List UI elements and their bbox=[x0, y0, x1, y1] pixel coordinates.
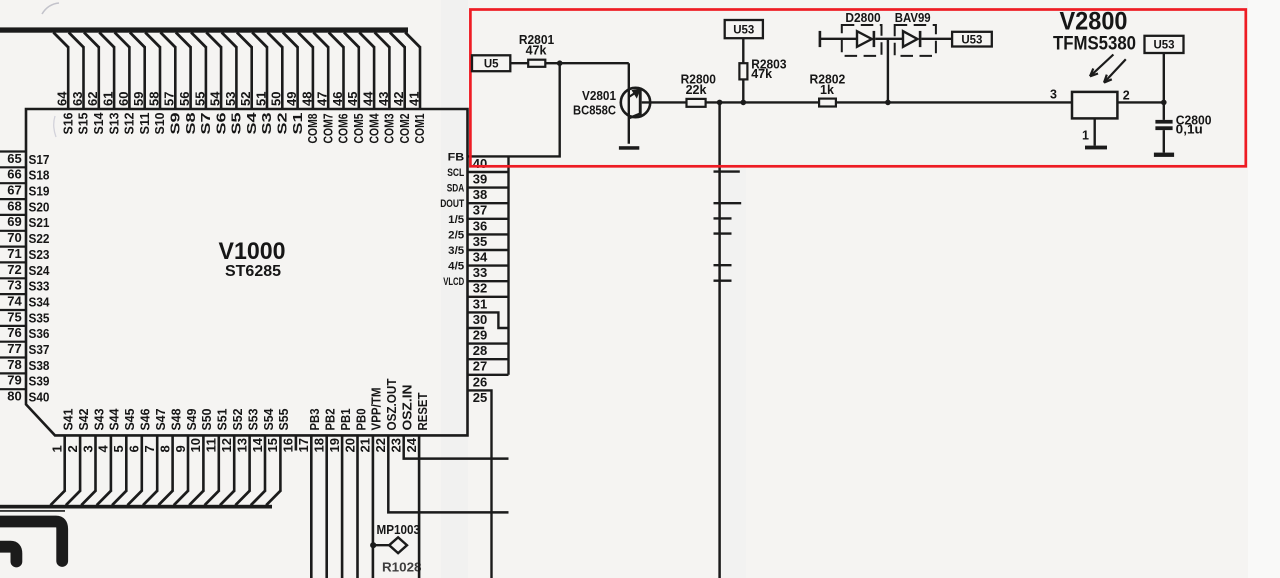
svg-text:59: 59 bbox=[131, 92, 146, 107]
svg-text:S3: S3 bbox=[260, 112, 274, 134]
svg-text:3: 3 bbox=[1050, 88, 1057, 102]
svg-text:38: 38 bbox=[473, 187, 488, 202]
svg-text:4: 4 bbox=[96, 445, 111, 453]
svg-text:PB2: PB2 bbox=[324, 408, 338, 430]
svg-text:60: 60 bbox=[116, 92, 131, 107]
svg-text:S52: S52 bbox=[231, 408, 245, 430]
svg-text:24: 24 bbox=[404, 437, 419, 452]
svg-text:41: 41 bbox=[406, 92, 421, 107]
svg-text:S24: S24 bbox=[29, 263, 51, 278]
svg-text:49: 49 bbox=[284, 92, 299, 107]
svg-text:S10: S10 bbox=[153, 112, 167, 134]
svg-text:54: 54 bbox=[208, 91, 223, 106]
svg-text:9: 9 bbox=[173, 445, 188, 452]
svg-text:66: 66 bbox=[7, 167, 22, 182]
svg-text:S16: S16 bbox=[61, 112, 75, 134]
svg-text:S19: S19 bbox=[29, 184, 50, 199]
svg-text:22: 22 bbox=[373, 438, 388, 453]
svg-text:COM1: COM1 bbox=[413, 113, 427, 143]
svg-text:PB3: PB3 bbox=[308, 408, 322, 430]
svg-text:COM5: COM5 bbox=[352, 113, 366, 143]
svg-text:78: 78 bbox=[7, 357, 22, 372]
svg-text:DOUT: DOUT bbox=[440, 198, 464, 210]
svg-text:10: 10 bbox=[188, 438, 203, 453]
svg-text:S42: S42 bbox=[77, 408, 91, 430]
svg-text:17: 17 bbox=[296, 438, 311, 453]
svg-text:S54: S54 bbox=[262, 408, 276, 430]
svg-text:S36: S36 bbox=[29, 326, 50, 341]
svg-text:44: 44 bbox=[361, 91, 376, 106]
svg-text:62: 62 bbox=[85, 92, 100, 107]
svg-text:55: 55 bbox=[192, 92, 207, 107]
svg-text:76: 76 bbox=[7, 325, 22, 340]
svg-text:R1028: R1028 bbox=[382, 561, 422, 575]
svg-text:S9: S9 bbox=[169, 112, 183, 134]
svg-text:COM2: COM2 bbox=[398, 113, 412, 143]
svg-text:S38: S38 bbox=[29, 358, 50, 373]
svg-text:3/5: 3/5 bbox=[448, 245, 464, 257]
svg-text:58: 58 bbox=[146, 92, 161, 107]
svg-text:S6: S6 bbox=[214, 112, 228, 134]
svg-text:S14: S14 bbox=[92, 112, 106, 134]
svg-text:S13: S13 bbox=[107, 112, 121, 134]
svg-text:1: 1 bbox=[1082, 129, 1089, 143]
svg-text:S7: S7 bbox=[199, 112, 213, 134]
svg-text:SDA: SDA bbox=[447, 183, 465, 195]
svg-text:S17: S17 bbox=[29, 152, 50, 167]
svg-text:S51: S51 bbox=[216, 408, 230, 430]
svg-text:S37: S37 bbox=[29, 342, 50, 357]
svg-text:COM4: COM4 bbox=[367, 113, 381, 143]
svg-text:32: 32 bbox=[473, 281, 488, 296]
svg-text:BC858C: BC858C bbox=[573, 104, 616, 118]
svg-text:47: 47 bbox=[315, 92, 330, 107]
svg-text:BAV99: BAV99 bbox=[895, 11, 931, 25]
svg-text:56: 56 bbox=[177, 92, 192, 107]
svg-text:S41: S41 bbox=[62, 408, 76, 430]
svg-text:35: 35 bbox=[473, 234, 488, 249]
svg-text:S46: S46 bbox=[139, 408, 153, 430]
svg-text:40: 40 bbox=[473, 156, 488, 171]
svg-text:26: 26 bbox=[473, 374, 488, 389]
svg-text:16: 16 bbox=[281, 438, 296, 453]
svg-text:74: 74 bbox=[7, 293, 22, 308]
svg-text:18: 18 bbox=[312, 438, 327, 453]
svg-text:65: 65 bbox=[7, 151, 22, 166]
svg-text:48: 48 bbox=[299, 92, 314, 107]
svg-text:30: 30 bbox=[473, 312, 488, 327]
svg-text:V1000: V1000 bbox=[219, 238, 286, 265]
svg-text:23: 23 bbox=[389, 438, 404, 453]
svg-text:57: 57 bbox=[162, 92, 177, 107]
svg-text:69: 69 bbox=[7, 214, 22, 229]
svg-text:6: 6 bbox=[127, 445, 142, 452]
svg-text:80: 80 bbox=[7, 389, 22, 404]
svg-text:FB: FB bbox=[448, 151, 465, 163]
svg-text:2: 2 bbox=[65, 445, 80, 452]
svg-text:PB0: PB0 bbox=[354, 408, 368, 430]
svg-text:ST6285: ST6285 bbox=[225, 263, 281, 280]
svg-text:S20: S20 bbox=[29, 199, 50, 214]
svg-text:VPP/TM: VPP/TM bbox=[370, 388, 384, 431]
svg-text:37: 37 bbox=[473, 203, 488, 218]
svg-text:U53: U53 bbox=[733, 25, 754, 37]
svg-text:13: 13 bbox=[234, 438, 249, 453]
svg-text:S22: S22 bbox=[29, 231, 50, 246]
svg-text:S40: S40 bbox=[29, 390, 50, 405]
svg-text:75: 75 bbox=[7, 309, 22, 324]
svg-text:29: 29 bbox=[473, 328, 488, 343]
svg-text:TFMS5380: TFMS5380 bbox=[1053, 34, 1136, 55]
svg-text:1/5: 1/5 bbox=[448, 214, 464, 226]
svg-text:28: 28 bbox=[473, 343, 488, 358]
svg-text:S55: S55 bbox=[277, 408, 291, 430]
svg-text:61: 61 bbox=[101, 92, 116, 107]
svg-text:11: 11 bbox=[204, 438, 219, 453]
svg-text:7: 7 bbox=[142, 445, 157, 452]
svg-text:S47: S47 bbox=[154, 408, 168, 430]
svg-text:S2: S2 bbox=[276, 112, 290, 134]
svg-text:79: 79 bbox=[7, 373, 22, 388]
svg-text:U53: U53 bbox=[1153, 40, 1174, 52]
svg-text:VLCD: VLCD bbox=[443, 276, 464, 288]
svg-text:COM7: COM7 bbox=[321, 113, 335, 143]
svg-text:51: 51 bbox=[253, 92, 268, 107]
svg-text:21: 21 bbox=[358, 438, 373, 453]
svg-text:47k: 47k bbox=[751, 67, 772, 81]
svg-text:20: 20 bbox=[342, 438, 357, 453]
svg-text:2: 2 bbox=[1123, 89, 1130, 103]
svg-text:S39: S39 bbox=[29, 374, 50, 389]
svg-text:S48: S48 bbox=[169, 408, 183, 430]
svg-text:RESET: RESET bbox=[416, 392, 430, 430]
svg-text:46: 46 bbox=[330, 92, 345, 107]
svg-text:3: 3 bbox=[80, 445, 95, 452]
svg-text:S53: S53 bbox=[246, 408, 260, 430]
svg-text:MP1003: MP1003 bbox=[377, 523, 421, 537]
svg-text:72: 72 bbox=[7, 262, 22, 277]
svg-text:15: 15 bbox=[265, 438, 280, 453]
svg-text:S5: S5 bbox=[230, 112, 244, 134]
svg-text:12: 12 bbox=[219, 438, 234, 453]
svg-text:S23: S23 bbox=[29, 247, 50, 262]
svg-text:63: 63 bbox=[70, 92, 85, 107]
svg-text:PB1: PB1 bbox=[339, 408, 353, 430]
svg-text:4/5: 4/5 bbox=[448, 261, 464, 273]
svg-text:14: 14 bbox=[250, 437, 265, 452]
svg-text:V2800: V2800 bbox=[1060, 8, 1128, 36]
svg-text:73: 73 bbox=[7, 278, 22, 293]
svg-text:2/5: 2/5 bbox=[448, 229, 464, 241]
svg-text:SCL: SCL bbox=[447, 167, 464, 179]
svg-text:71: 71 bbox=[7, 246, 22, 261]
svg-text:S33: S33 bbox=[29, 279, 50, 294]
svg-text:45: 45 bbox=[345, 92, 360, 107]
svg-text:42: 42 bbox=[391, 92, 406, 107]
svg-text:67: 67 bbox=[7, 183, 22, 198]
svg-text:53: 53 bbox=[223, 92, 238, 107]
svg-text:S34: S34 bbox=[29, 294, 51, 309]
svg-text:70: 70 bbox=[7, 230, 22, 245]
svg-text:S4: S4 bbox=[245, 112, 259, 134]
svg-text:1: 1 bbox=[50, 445, 65, 452]
svg-text:S45: S45 bbox=[123, 408, 137, 430]
svg-text:36: 36 bbox=[473, 218, 488, 233]
svg-text:U53: U53 bbox=[961, 35, 982, 47]
svg-text:33: 33 bbox=[473, 265, 488, 280]
svg-text:U5: U5 bbox=[484, 59, 499, 71]
svg-text:COM3: COM3 bbox=[383, 113, 397, 143]
svg-text:22k: 22k bbox=[686, 83, 707, 97]
svg-text:47k: 47k bbox=[526, 43, 547, 57]
svg-text:S43: S43 bbox=[92, 408, 106, 430]
svg-text:S11: S11 bbox=[138, 112, 152, 134]
svg-text:V2801: V2801 bbox=[582, 89, 616, 103]
svg-text:D2800: D2800 bbox=[845, 11, 880, 25]
svg-text:19: 19 bbox=[327, 438, 342, 453]
svg-text:S50: S50 bbox=[200, 408, 214, 430]
svg-text:77: 77 bbox=[7, 341, 22, 356]
svg-text:25: 25 bbox=[473, 390, 488, 405]
svg-text:S44: S44 bbox=[108, 408, 122, 430]
svg-text:S49: S49 bbox=[185, 408, 199, 430]
svg-text:52: 52 bbox=[238, 92, 253, 107]
svg-text:COM8: COM8 bbox=[306, 113, 320, 143]
svg-text:68: 68 bbox=[7, 198, 22, 213]
svg-text:64: 64 bbox=[55, 91, 70, 106]
svg-text:OSZ.IN: OSZ.IN bbox=[401, 385, 415, 431]
svg-text:8: 8 bbox=[157, 445, 172, 452]
svg-text:COM6: COM6 bbox=[337, 113, 351, 143]
svg-text:S1: S1 bbox=[291, 112, 305, 134]
svg-text:0,1u: 0,1u bbox=[1176, 123, 1203, 137]
svg-text:34: 34 bbox=[473, 250, 488, 265]
svg-text:50: 50 bbox=[269, 92, 284, 107]
svg-text:S21: S21 bbox=[29, 215, 50, 230]
svg-text:S35: S35 bbox=[29, 310, 50, 325]
svg-text:S15: S15 bbox=[77, 112, 91, 134]
svg-text:5: 5 bbox=[111, 445, 126, 452]
svg-text:31: 31 bbox=[473, 296, 488, 311]
svg-text:1k: 1k bbox=[820, 83, 834, 97]
svg-text:S12: S12 bbox=[123, 112, 137, 134]
svg-text:43: 43 bbox=[376, 92, 391, 107]
svg-text:OSZ.OUT: OSZ.OUT bbox=[385, 378, 399, 430]
svg-text:S18: S18 bbox=[29, 168, 50, 183]
svg-text:39: 39 bbox=[473, 172, 488, 187]
svg-text:27: 27 bbox=[473, 359, 488, 374]
svg-text:S8: S8 bbox=[184, 112, 198, 134]
